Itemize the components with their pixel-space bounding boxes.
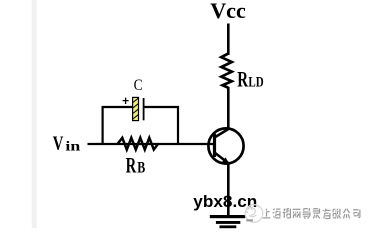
resistor RB <box>118 138 159 150</box>
watermark logo <box>245 205 266 223</box>
watermark ybx8.cn <box>193 193 257 211</box>
svg-text:V: V <box>53 133 64 155</box>
resistor RLD <box>221 54 232 88</box>
svg-text:R: R <box>237 66 249 91</box>
watermark company text (CJK strokes) <box>262 208 360 219</box>
wire Vin to base (main horizontal) <box>88 143 214 145</box>
svg-text:LD: LD <box>248 74 263 90</box>
wire right vertical of RC loop <box>177 106 179 144</box>
node Vcc <box>210 0 246 23</box>
label RB <box>126 153 146 178</box>
svg-text:in: in <box>65 138 80 153</box>
node Vin <box>53 133 81 155</box>
label RLD <box>237 66 263 91</box>
label + (capacitor polarity) <box>123 98 129 104</box>
ground <box>210 215 245 228</box>
transistor Q1 <box>208 128 243 164</box>
label C <box>134 77 143 94</box>
capacitor C1 <box>133 97 144 120</box>
wire RLD to collector <box>227 87 230 130</box>
wire left vertical of RC loop <box>101 106 103 144</box>
svg-text:C: C <box>134 77 143 94</box>
wire capacitor to top-right <box>145 106 180 108</box>
wire Vcc to RLD <box>227 24 230 56</box>
wire top-left to capacitor <box>102 106 134 108</box>
svg-text:R: R <box>126 153 137 178</box>
svg-text:B: B <box>137 160 145 177</box>
svg-text:Vcc: Vcc <box>210 0 246 23</box>
wire emitter to ground <box>227 163 230 216</box>
